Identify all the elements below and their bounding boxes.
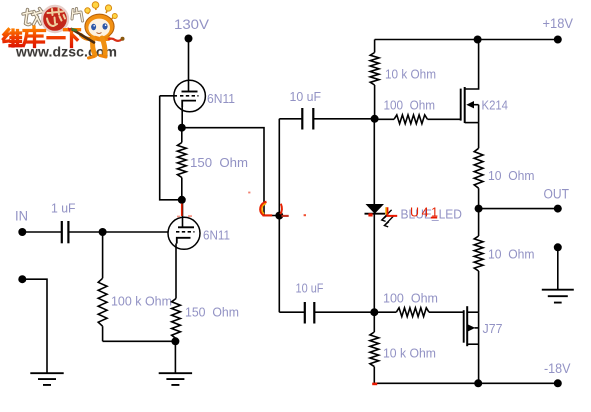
wire C3 to node J [314,311,374,313]
terminal +18V [543,16,574,44]
terminal OUT [544,187,570,213]
wire 130V to V1 plate [188,39,190,92]
triode V1 grid (dashed) [160,95,199,97]
ground: V2 cathode return [159,373,192,385]
node G: Q1 drain on +18V rail [474,36,482,44]
svg-text:OUT: OUT [544,187,570,202]
wire node D to V2 grid [103,231,169,233]
svg-text:6N11: 6N11 [207,92,235,106]
svg-text:100 Ohm: 100 Ohm [384,98,436,113]
wire V1 grid to node C [160,96,178,200]
svg-text:150 Ohm: 150 Ohm [185,305,239,320]
MOSFET Q1 body arrow (points left) [466,101,478,108]
node J: C3 / R9 / R10 / LED column [370,308,378,316]
terminal -18V [544,361,571,387]
wire IN to C1 [22,231,61,233]
MOSFET Q2 source lead [467,311,478,313]
svg-text:+18V: +18V [543,16,574,31]
node H: output junction [475,205,483,213]
MOSFET Q1 K214 gate bar [460,89,462,121]
red letter mark at LED [386,207,397,216]
node A: V1 cathode / R2 / output takeoff [178,124,186,132]
node F: R5 / C2 / R6 / LED column [371,115,379,123]
red text U41 over BLUE_LED [410,206,441,220]
node I: Q2 drain on -18V rail [474,379,482,387]
svg-text:6N11: 6N11 [203,229,230,243]
wire node C to V2 plate [182,200,184,228]
resistor R5 10 kOhm (upper bias) [370,40,436,119]
svg-text:10 uF: 10 uF [296,281,324,296]
MOSFET Q2 body arrow (points right) [468,321,503,336]
terminal input ground stub [18,275,26,283]
svg-text:10 uF: 10 uF [290,89,322,104]
node C: V2 plate / V1 grid / R2 bottom [178,196,186,204]
resistor R2 150 Ohm (V1 cathode load) [177,128,248,200]
MOSFET Q1 drain lead [465,40,479,90]
svg-text:J77: J77 [483,321,503,336]
capacitor C3 10 uF (lower coupling) [279,281,323,324]
terminal 130V supply [174,17,209,43]
svg-text:10 k Ohm: 10 k Ohm [385,67,436,82]
node B: junction on coupling bus [275,212,283,220]
svg-text:130V: 130V [174,17,209,32]
svg-text:100 Ohm: 100 Ohm [383,291,438,306]
triode V2 cathode [177,238,191,244]
wire node F to LED anode [373,119,375,205]
wire LED cathode to node J [373,214,375,313]
wire -18V rail [374,382,558,384]
resistor R8 10 Ohm (lower source) [474,209,534,313]
wire node E to ground [174,341,176,373]
wire C1 to node D [68,231,102,233]
MOSFET Q1 source lead [465,98,508,123]
wire R3 bottom to node E [103,340,176,342]
red mark on LED cathode bar [368,213,372,216]
triode V2 plate [178,226,194,228]
resistor R10 100 Ohm (Q2 gate stopper) [374,291,463,317]
triode V2 6N11 lower: envelope [168,217,230,249]
terminal IN [15,209,28,237]
triode V1 plate [182,91,198,93]
svg-text:1 uF: 1 uF [51,201,76,216]
wire Q1 source to R7 [478,123,480,149]
wire V2 cathode to R4 [175,244,177,299]
node E: R4 / R3 / ground [171,337,179,345]
red tick on -18V rail end [372,383,377,386]
capacitor C1 1 uF [51,201,76,244]
triode V1 cathode [182,101,196,107]
svg-text:-18V: -18V [544,361,571,376]
wire coupling bus vertical [278,119,280,312]
wire +18V rail [375,39,558,41]
wire output ground [557,247,559,289]
svg-text:10 Ohm: 10 Ohm [488,247,535,262]
MOSFET Q2 drain lead [467,312,478,383]
triode V2 grid (dashed) [176,231,195,233]
resistor R6 100 Ohm (Q1 gate stopper) [375,98,460,124]
red annotation tick below node C [181,204,183,216]
wire V1 cathode down to node A [181,107,183,128]
watermark: dzsc.com logo [4,2,125,60]
wire node A to coupling bus [182,128,278,216]
ground: input [30,373,63,385]
node D: R3 top / V2 grid [99,228,107,236]
capacitor C2 10 uF (upper coupling) [279,89,321,130]
faint red dots above V2 [177,215,192,217]
wire C2 to node F [313,118,374,120]
MOSFET Q1 K214 channel bar [464,87,466,123]
red annotation ring near node B [248,192,306,217]
svg-text:10 k Ohm: 10 k Ohm [383,346,436,361]
terminal output ground [554,243,562,251]
wire OUT [479,208,558,210]
triode V1 6N11 upper: envelope [174,80,235,112]
resistor R7 10 Ohm (upper source) [474,148,534,208]
resistor R9 10 kOhm (lower bias) [370,312,436,383]
ground: output [542,290,574,303]
LED D1 BLUE_LED [365,204,463,227]
resistor R3 100 kOhm (grid leak) [98,232,172,341]
svg-text:150 Ohm: 150 Ohm [190,155,248,170]
svg-text:K214: K214 [482,98,509,113]
wire input ground stub [22,279,47,373]
svg-text:10 Ohm: 10 Ohm [488,168,535,183]
MOSFET Q2 J77 gate bar [463,310,465,343]
svg-text:IN: IN [15,209,28,224]
MOSFET Q2 J77 channel bar [466,306,468,346]
svg-text:100 k Ohm: 100 k Ohm [111,294,172,309]
resistor R4 150 Ohm (V2 cathode) [172,299,239,342]
